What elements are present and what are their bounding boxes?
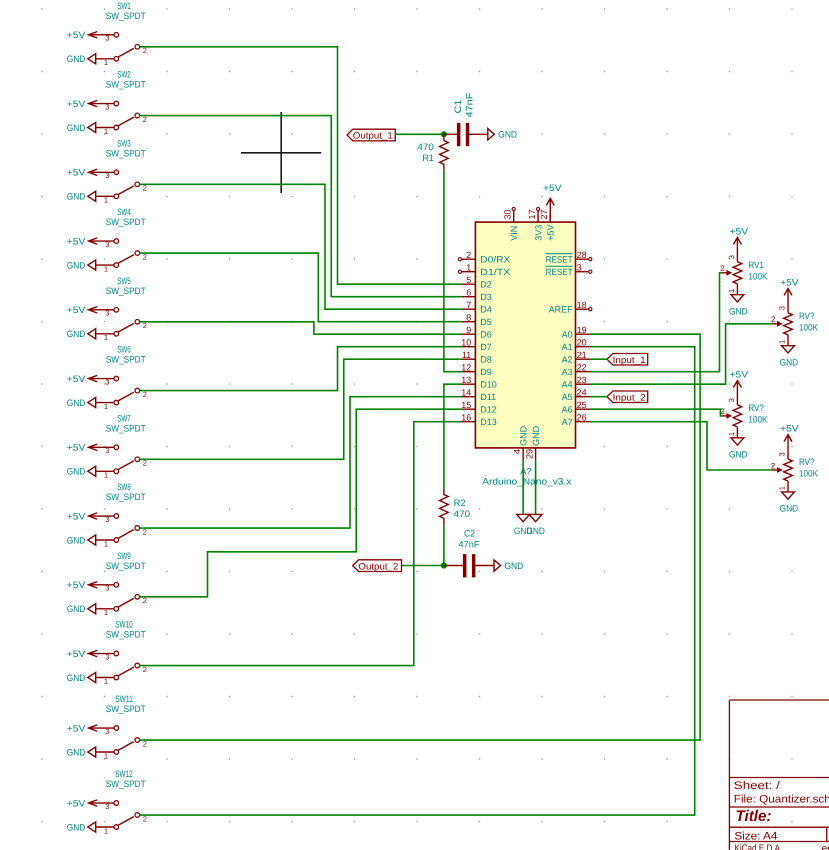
svg-text:3: 3 — [105, 102, 109, 111]
svg-text:GND: GND — [729, 450, 748, 460]
SW2 pin 1 — [96, 125, 119, 136]
svg-text:2: 2 — [720, 264, 725, 273]
svg-text:14: 14 — [461, 387, 471, 397]
svg-text:10: 10 — [461, 337, 471, 347]
switch SW10 (SW_SPDT) — [67, 620, 147, 686]
potentiometer RV? — [771, 277, 819, 367]
+5V power (SW11) — [67, 723, 114, 733]
svg-text:GND: GND — [531, 425, 541, 446]
svg-text:SW5: SW5 — [117, 276, 131, 286]
svg-text:File: Quantizer.sch: File: Quantizer.sch — [734, 794, 829, 806]
svg-text:SW_SPDT: SW_SPDT — [106, 704, 146, 714]
pin 18 AREF — [549, 300, 592, 315]
+5V power (RV?) — [780, 277, 799, 313]
svg-text:1: 1 — [778, 340, 787, 344]
junction at C1/R1 node — [441, 131, 447, 137]
svg-text:A3: A3 — [562, 367, 573, 377]
svg-text:3: 3 — [105, 34, 109, 43]
svg-text:3: 3 — [105, 377, 109, 386]
svg-text:Arduino_Nano_v3.x: Arduino_Nano_v3.x — [482, 477, 571, 487]
pin 21 A2 — [562, 350, 589, 365]
svg-text:+5V: +5V — [730, 369, 749, 379]
svg-text:3: 3 — [105, 446, 109, 455]
svg-text:100K: 100K — [799, 322, 819, 332]
svg-text:SW_SPDT: SW_SPDT — [106, 355, 146, 365]
pin 22 A3 — [562, 362, 589, 377]
svg-text:+5V: +5V — [730, 226, 749, 236]
svg-text:GND: GND — [67, 673, 86, 683]
svg-text:GND: GND — [505, 561, 524, 571]
svg-text:+5V: +5V — [67, 649, 86, 659]
SW4 lever — [118, 255, 134, 264]
RV? body — [784, 313, 793, 335]
svg-text:3: 3 — [105, 584, 109, 593]
svg-text:A7: A7 — [562, 417, 573, 427]
svg-text:GND: GND — [67, 398, 86, 408]
GND power (RV?) — [729, 438, 748, 460]
svg-text:100K: 100K — [748, 415, 768, 425]
GND power (RV1) — [729, 295, 748, 317]
pin 7 D4 — [461, 300, 492, 315]
SW9 pin 1 — [96, 607, 119, 618]
RV? pin 1 — [778, 335, 789, 346]
svg-text:Output_2: Output_2 — [358, 561, 398, 571]
svg-text:4: 4 — [512, 449, 522, 454]
pin 8 D5 — [461, 312, 492, 327]
svg-text:3: 3 — [105, 240, 109, 249]
wire R1 to D9 — [444, 170, 461, 371]
SW10 pin 2 — [135, 663, 147, 674]
SW10 lever — [118, 667, 134, 676]
pin 28 RESET — [546, 250, 592, 265]
svg-text:SW_SPDT: SW_SPDT — [106, 286, 146, 296]
GND power (SW12) — [67, 822, 96, 832]
svg-text:13: 13 — [461, 375, 471, 385]
pin 30 VIN — [503, 207, 520, 240]
+5V power (SW8) — [67, 511, 114, 521]
svg-text:1: 1 — [104, 826, 108, 835]
pin 2 D0/RX — [458, 250, 510, 265]
SW3 pin 2 — [135, 182, 147, 193]
title block — [729, 700, 829, 850]
svg-text:RV?: RV? — [799, 457, 815, 467]
SW11 pin 1 — [96, 750, 119, 761]
svg-text:18: 18 — [577, 300, 587, 310]
hierarchical label Input_2 — [607, 391, 648, 403]
capacitor C2 — [444, 554, 494, 577]
pin 10 D7 — [461, 337, 492, 352]
SW11 lever — [118, 742, 134, 751]
svg-text:GND: GND — [67, 467, 86, 477]
wire R2 to junction — [443, 526, 445, 566]
svg-text:D9: D9 — [480, 367, 492, 377]
switch SW8 (SW_SPDT) — [67, 482, 147, 548]
svg-text:20: 20 — [577, 337, 587, 347]
GND power (SW11) — [67, 747, 96, 757]
switch SW4 (SW_SPDT) — [67, 207, 147, 273]
SW9 lever — [118, 598, 134, 607]
svg-text:11: 11 — [462, 350, 471, 360]
svg-text:7: 7 — [466, 300, 471, 310]
svg-text:SW6: SW6 — [117, 345, 131, 355]
svg-text:Input_1: Input_1 — [613, 355, 646, 365]
SW7 pin 2 — [135, 457, 147, 468]
SW5 pin 1 — [96, 332, 119, 343]
wire SW4 to D5 — [140, 253, 462, 322]
pin 13 D10 — [461, 375, 497, 390]
svg-text:+5V: +5V — [67, 580, 86, 590]
svg-text:SW4: SW4 — [117, 207, 131, 217]
GND power (SW6) — [67, 397, 96, 407]
svg-text:R1: R1 — [422, 153, 434, 163]
+5V power (RV1) — [730, 226, 749, 261]
svg-text:2: 2 — [466, 250, 471, 260]
junction at C2/R2 node — [441, 562, 447, 568]
pin 5 D2 — [461, 275, 492, 290]
SW9 pin 2 — [135, 595, 147, 606]
svg-text:1: 1 — [104, 471, 108, 480]
+5V power (SW12) — [67, 798, 114, 808]
svg-text:Size: A4: Size: A4 — [734, 830, 777, 842]
svg-text:2: 2 — [771, 461, 776, 470]
SW8 pin 2 — [135, 526, 147, 537]
svg-text:1: 1 — [104, 127, 108, 136]
svg-text:RESET: RESET — [546, 255, 573, 265]
svg-text:1: 1 — [727, 432, 736, 436]
wire SW8 to D11 — [140, 397, 462, 528]
wire A6 to RV? wiper — [589, 409, 721, 416]
svg-text:+5V: +5V — [67, 305, 86, 315]
svg-text:100K: 100K — [799, 469, 819, 479]
svg-text:SW12: SW12 — [115, 769, 133, 779]
SW5 lever — [118, 323, 134, 332]
pin 29 GND — [524, 425, 541, 460]
wire A4 to RV? wiper — [589, 324, 772, 384]
svg-text:GND: GND — [729, 306, 748, 316]
RV1 body — [733, 262, 742, 284]
svg-text:A6: A6 — [562, 405, 573, 415]
svg-text:+5V: +5V — [543, 183, 562, 193]
svg-text:AREF: AREF — [549, 305, 574, 315]
SW6 pin 1 — [96, 400, 119, 411]
RV? wiper pin 2 — [720, 407, 732, 419]
wire D10 to R2 — [444, 384, 461, 488]
svg-text:GND: GND — [67, 747, 86, 757]
SW4 pin 2 — [135, 251, 147, 262]
wire SW6 to D7 — [140, 347, 462, 391]
svg-text:+5V: +5V — [67, 798, 86, 808]
pin 27 +5V — [539, 209, 556, 240]
svg-text:SW11: SW11 — [115, 694, 133, 704]
svg-text:C1: C1 — [453, 100, 463, 114]
svg-text:+5V: +5V — [67, 99, 86, 109]
svg-text:22: 22 — [577, 362, 587, 372]
svg-text:VIN: VIN — [509, 226, 519, 241]
pin 15 D12 — [461, 400, 497, 415]
wire SW5 to D6 — [140, 322, 462, 334]
SW12 pin 1 — [96, 825, 119, 836]
wire SW7 to D8 — [140, 359, 462, 459]
GND power (SW8) — [67, 535, 96, 545]
RV? wiper pin 2 — [771, 315, 783, 327]
svg-text:RESET: RESET — [546, 267, 573, 277]
RV1 pin 1 — [727, 284, 738, 295]
GND power (pin 29) — [526, 514, 545, 536]
svg-text:1: 1 — [104, 402, 108, 411]
pin 17 3V3 — [527, 207, 544, 240]
svg-text:eeschema: eeschema — [822, 843, 829, 850]
RV? pin 1 — [778, 481, 789, 492]
SW6 lever — [118, 392, 134, 401]
svg-text:GND: GND — [67, 192, 86, 202]
svg-text:RV?: RV? — [748, 403, 764, 413]
pin 19 A0 — [562, 325, 589, 340]
pin 24 A5 — [562, 387, 589, 402]
switch SW9 (SW_SPDT) — [67, 551, 147, 617]
RV? body — [733, 405, 742, 427]
resistor R2 — [440, 488, 449, 526]
svg-text:470: 470 — [454, 509, 471, 519]
svg-text:3: 3 — [577, 262, 582, 272]
wire SW12 to A1 — [140, 347, 695, 815]
resistor R1 — [440, 134, 449, 170]
SW8 lever — [118, 530, 134, 539]
svg-text:SW1: SW1 — [117, 1, 131, 11]
wire SW3 to D4 — [140, 184, 462, 309]
svg-text:D8: D8 — [480, 355, 492, 365]
SW10 pin 1 — [96, 675, 119, 686]
svg-text:25: 25 — [577, 400, 587, 410]
svg-text:28: 28 — [577, 250, 587, 260]
svg-text:A0: A0 — [562, 330, 573, 340]
SW7 lever — [118, 461, 134, 470]
svg-text:30: 30 — [503, 209, 513, 219]
svg-text:D7: D7 — [480, 342, 492, 352]
pin 20 A1 — [562, 337, 589, 352]
potentiometer RV? — [771, 424, 819, 514]
pin 3 RESET — [546, 262, 592, 277]
hierarchical label Output_2 — [353, 560, 402, 572]
SW6 pin 2 — [135, 388, 147, 399]
svg-text:3: 3 — [778, 452, 787, 456]
svg-text:SW_SPDT: SW_SPDT — [106, 779, 146, 789]
svg-text:1: 1 — [778, 486, 787, 490]
hierarchical label Output_1 — [347, 129, 395, 141]
svg-text:1: 1 — [104, 539, 108, 548]
svg-text:47nF: 47nF — [459, 539, 480, 549]
switch SW5 (SW_SPDT) — [67, 276, 147, 342]
svg-text:D11: D11 — [480, 392, 496, 402]
SW4 pin 1 — [96, 263, 119, 274]
svg-text:D13: D13 — [480, 417, 497, 427]
svg-text:23: 23 — [577, 375, 587, 385]
cursor crosshair — [241, 112, 321, 193]
svg-text:+5V: +5V — [780, 277, 799, 287]
switch SW3 (SW_SPDT) — [67, 138, 147, 204]
wire Output_1 to junction — [395, 133, 444, 135]
GND power (pin 4) — [514, 514, 533, 536]
svg-text:8: 8 — [466, 312, 471, 322]
SW8 pin 1 — [96, 538, 119, 549]
svg-text:C2: C2 — [464, 529, 475, 539]
svg-text:3: 3 — [105, 727, 109, 736]
switch SW2 (SW_SPDT) — [67, 70, 147, 136]
svg-text:1: 1 — [466, 262, 471, 272]
switch SW1 (SW_SPDT) — [67, 1, 147, 67]
svg-text:D6: D6 — [480, 330, 492, 340]
svg-text:15: 15 — [461, 400, 471, 410]
svg-text:SW10: SW10 — [115, 620, 133, 630]
svg-text:3: 3 — [727, 255, 736, 259]
svg-text:5: 5 — [466, 275, 471, 285]
svg-text:Sheet: /: Sheet: / — [734, 780, 781, 792]
svg-text:470: 470 — [417, 142, 434, 152]
svg-text:16: 16 — [461, 412, 471, 422]
svg-text:1: 1 — [104, 58, 108, 67]
+5V power (Arduino pin 27) — [543, 183, 562, 222]
+5V power (SW1) — [67, 30, 114, 40]
+5V power (RV?) — [780, 424, 799, 460]
GND power (SW4) — [67, 260, 96, 270]
svg-text:3V3: 3V3 — [533, 225, 543, 241]
svg-text:GND: GND — [67, 535, 86, 545]
svg-text:R2: R2 — [454, 498, 466, 508]
svg-text:RV?: RV? — [799, 311, 815, 321]
svg-text:KiCad E.D.A.: KiCad E.D.A. — [734, 843, 782, 850]
SW1 pin 2 — [135, 45, 147, 56]
wire SW11 to A0 — [140, 334, 701, 740]
svg-text:SW_SPDT: SW_SPDT — [106, 561, 146, 571]
svg-text:1: 1 — [104, 264, 108, 273]
pin 12 D9 — [461, 362, 492, 377]
svg-text:GND: GND — [780, 504, 799, 514]
svg-text:1: 1 — [104, 196, 108, 205]
wire A7 to RV? wiper — [589, 422, 772, 470]
GND power (SW10) — [67, 672, 96, 682]
svg-text:A4: A4 — [562, 380, 573, 390]
svg-text:D3: D3 — [480, 292, 492, 302]
switch SW11 (SW_SPDT) — [67, 694, 147, 760]
svg-text:+5V: +5V — [67, 511, 86, 521]
svg-text:6: 6 — [466, 287, 471, 297]
GND power (SW3) — [67, 191, 96, 201]
svg-text:+5V: +5V — [67, 374, 86, 384]
pin 6 D3 — [461, 287, 492, 302]
svg-text:A1: A1 — [562, 342, 573, 352]
svg-text:A5: A5 — [562, 392, 573, 402]
svg-text:2: 2 — [771, 315, 776, 324]
svg-text:D5: D5 — [480, 317, 492, 327]
switch SW6 (SW_SPDT) — [67, 345, 147, 411]
SW5 pin 2 — [135, 320, 147, 331]
RV? pin 1 — [727, 427, 738, 438]
svg-text:+5V: +5V — [546, 225, 556, 241]
svg-text:GND: GND — [67, 329, 86, 339]
svg-text:SW2: SW2 — [117, 70, 131, 80]
svg-text:SW3: SW3 — [117, 138, 131, 148]
svg-text:1: 1 — [104, 677, 108, 686]
Arduino Nano A? (Arduino_Nano_v3.x) — [458, 207, 592, 486]
svg-text:9: 9 — [466, 325, 471, 335]
svg-text:GND: GND — [67, 604, 86, 614]
wire SW9 to D12 — [140, 409, 462, 597]
SW1 lever — [118, 48, 134, 57]
svg-text:+5V: +5V — [67, 443, 86, 453]
svg-text:SW_SPDT: SW_SPDT — [106, 148, 146, 158]
svg-text:Input_2: Input_2 — [613, 393, 646, 403]
svg-text:+5V: +5V — [780, 424, 799, 434]
RV1 wiper pin 2 — [720, 264, 732, 276]
capacitor C1 — [444, 123, 488, 146]
svg-text:+5V: +5V — [67, 723, 86, 733]
SW3 pin 1 — [96, 194, 119, 205]
svg-text:3: 3 — [105, 652, 109, 661]
GND power (SW9) — [67, 604, 96, 614]
svg-text:SW_SPDT: SW_SPDT — [106, 423, 146, 433]
wire GND pin 29 — [535, 460, 537, 514]
svg-text:SW9: SW9 — [117, 551, 131, 561]
svg-text:A2: A2 — [562, 355, 573, 365]
svg-text:SW_SPDT: SW_SPDT — [106, 11, 146, 21]
svg-text:+5V: +5V — [67, 30, 86, 40]
GND power (SW7) — [67, 466, 96, 476]
+5V power (SW2) — [67, 99, 114, 109]
pin 1 D1/TX — [458, 262, 510, 277]
svg-text:GND: GND — [498, 130, 517, 140]
+5V power (SW5) — [67, 305, 114, 315]
pin 25 A6 — [562, 400, 589, 415]
+5V power (SW3) — [67, 168, 114, 178]
svg-text:D10: D10 — [480, 380, 497, 390]
svg-text:GND: GND — [67, 260, 86, 270]
SW7 pin 1 — [96, 469, 119, 480]
+5V power (SW4) — [67, 236, 114, 246]
GND power (SW2) — [67, 122, 96, 132]
wire SW10 to D13 — [140, 422, 462, 666]
svg-text:17: 17 — [527, 209, 537, 219]
svg-text:GND: GND — [67, 54, 86, 64]
pin 26 A7 — [562, 412, 589, 427]
svg-text:SW_SPDT: SW_SPDT — [106, 217, 146, 227]
svg-text:1: 1 — [727, 289, 736, 293]
potentiometer RV? — [720, 369, 768, 459]
pin 16 D13 — [461, 412, 497, 427]
+5V power (SW7) — [67, 443, 114, 453]
svg-text:GND: GND — [780, 357, 799, 367]
GND power (SW1) — [67, 54, 96, 64]
+5V power (RV?) — [730, 369, 749, 405]
wire Output_2 to junction — [402, 565, 444, 567]
wire SW1 to D2 — [140, 47, 462, 284]
switch SW7 (SW_SPDT) — [67, 413, 147, 479]
hierarchical label Input_1 — [607, 354, 648, 366]
svg-text:100K: 100K — [748, 271, 768, 281]
SW1 pin 1 — [96, 57, 119, 68]
pin 14 D11 — [461, 387, 496, 402]
SW3 lever — [118, 186, 134, 195]
svg-text:GND: GND — [518, 425, 528, 446]
svg-text:+5V: +5V — [67, 236, 86, 246]
GND power (RV?) — [780, 492, 799, 514]
SW12 pin 2 — [135, 813, 147, 824]
svg-text:GND: GND — [67, 822, 86, 832]
svg-text:1: 1 — [104, 608, 108, 617]
svg-text:3: 3 — [105, 515, 109, 524]
pin 4 GND — [512, 425, 529, 460]
GND power (SW5) — [67, 329, 96, 339]
svg-text:1: 1 — [104, 333, 108, 342]
svg-text:27: 27 — [539, 209, 549, 219]
